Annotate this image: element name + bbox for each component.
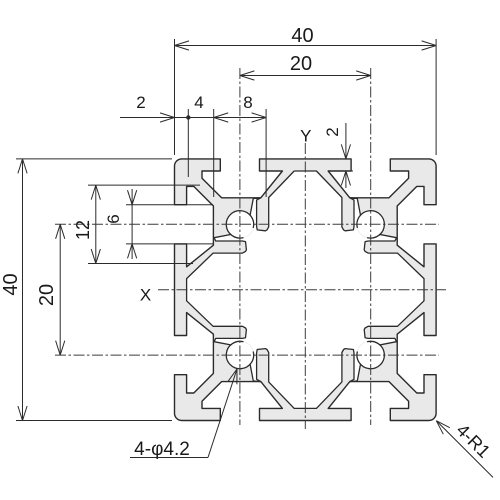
svg-text:4-φ4.2: 4-φ4.2 — [134, 439, 190, 460]
dim 4 top — [188, 117, 213, 119]
centerline X axis — [158, 289, 446, 291]
hole phi4.2 — [357, 341, 384, 368]
dim 40 left — [22, 159, 24, 421]
svg-text:4: 4 — [194, 93, 203, 112]
centerline Y axis — [304, 143, 306, 429]
dim 20 left — [59, 224, 61, 355]
svg-text:20: 20 — [36, 284, 58, 306]
dim 8 top — [214, 117, 266, 119]
dim 20 top — [240, 75, 371, 77]
leader 4-R1 — [437, 421, 493, 477]
dim 2 tab thickness — [345, 123, 347, 159]
extrusion profile body — [175, 159, 437, 421]
svg-text:40: 40 — [0, 273, 22, 295]
hole phi4.2 — [226, 341, 253, 368]
hole phi4.2 — [357, 211, 384, 238]
svg-text:X: X — [140, 286, 151, 305]
svg-text:2: 2 — [323, 127, 342, 136]
centerline slots horizontal top — [55, 223, 439, 225]
dim 12 left — [95, 185, 97, 263]
svg-text:40: 40 — [291, 25, 313, 47]
dim 6 left — [131, 205, 133, 244]
svg-text:2: 2 — [136, 93, 145, 112]
hole phi4.2 — [226, 211, 253, 238]
svg-text:Y: Y — [300, 127, 311, 146]
centerline slots vertical left — [239, 68, 241, 425]
svg-text:8: 8 — [243, 93, 252, 112]
centerline slots horizontal bottom — [55, 354, 439, 356]
svg-text:12: 12 — [73, 220, 93, 240]
centerline slots vertical right — [370, 68, 372, 425]
svg-text:6: 6 — [104, 214, 123, 223]
dim 2 top — [120, 117, 188, 119]
svg-text:20: 20 — [290, 53, 312, 75]
dim 40 top — [175, 45, 437, 47]
center cavity — [187, 171, 424, 408]
